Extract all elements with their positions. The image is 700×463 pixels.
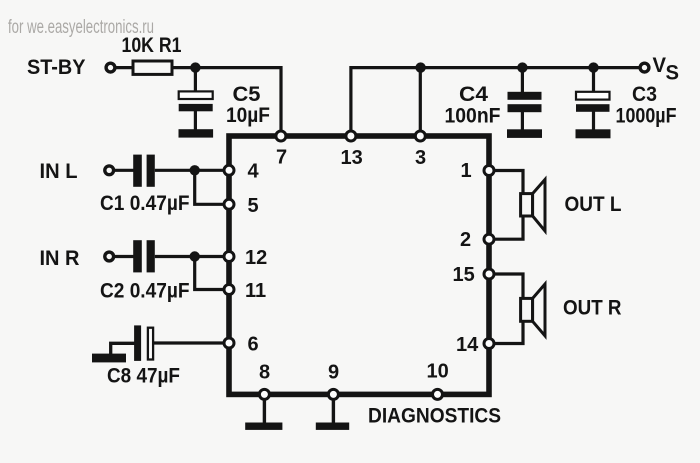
node A junction [190, 62, 200, 72]
pin 8 [259, 362, 270, 400]
svg-text:OUT R: OUT R [563, 297, 622, 320]
wire IN R to C2 [114, 255, 134, 258]
svg-text:6: 6 [248, 334, 259, 356]
Vs rail wire (pin 13 riser to Vs terminal) [351, 68, 640, 133]
Vs terminal [640, 53, 679, 85]
svg-text:IN L: IN L [40, 160, 78, 183]
svg-text:100nF: 100nF [445, 105, 501, 128]
svg-text:13: 13 [341, 147, 363, 169]
wire IN L to C1 [114, 169, 134, 172]
pin 5 [224, 195, 259, 217]
svg-text:C5: C5 [233, 83, 261, 106]
pin 12 [224, 247, 267, 269]
svg-text:3: 3 [415, 147, 426, 169]
speaker OUT L [521, 180, 622, 232]
svg-text:1: 1 [461, 160, 472, 182]
node C junction [517, 62, 527, 72]
IN R terminal [40, 247, 114, 270]
svg-text:7: 7 [276, 147, 287, 169]
pin 2 [460, 229, 494, 251]
svg-text:14: 14 [456, 334, 479, 356]
ground (C4) [507, 129, 542, 138]
ground pin 9 [316, 399, 349, 430]
ST-BY terminal [27, 56, 115, 79]
svg-text:C2 0.47µF: C2 0.47µF [100, 280, 190, 303]
ground pin 8 [245, 399, 282, 430]
svg-text:OUT L: OUT L [565, 193, 622, 216]
svg-text:12: 12 [245, 247, 267, 269]
IC U1 body [229, 136, 489, 394]
node D junction [588, 62, 598, 72]
svg-text:11: 11 [245, 280, 266, 302]
wire C2 to pin 12 [155, 255, 226, 258]
pin 1 [461, 160, 495, 182]
pin 6 [224, 334, 259, 356]
svg-text:2: 2 [460, 229, 471, 251]
wire pin 2 to speaker L [494, 215, 523, 239]
ground (C8) [92, 343, 135, 362]
IN L terminal [40, 160, 114, 183]
svg-text:8: 8 [259, 362, 270, 384]
wire C1 to pin 4 [155, 169, 226, 172]
capacitor C4 [445, 68, 542, 130]
capacitor C2 [100, 240, 190, 302]
svg-text:DIAGNOSTICS: DIAGNOSTICS [368, 405, 501, 428]
pin 15 [453, 264, 495, 286]
svg-text:ST-BY: ST-BY [27, 56, 86, 79]
svg-text:10µF: 10µF [226, 104, 270, 127]
svg-text:9: 9 [328, 362, 339, 384]
wire node E to pin 5 [195, 170, 226, 204]
capacitor C5 [179, 68, 270, 131]
svg-text:1000µF: 1000µF [616, 105, 677, 128]
pin 3 [415, 131, 426, 169]
svg-text:C1 0.47µF: C1 0.47µF [100, 192, 190, 215]
ground (C5) [179, 129, 214, 137]
capacitor C8 [107, 325, 180, 387]
svg-text:10: 10 [427, 361, 449, 383]
pin 9 [328, 362, 339, 400]
wire pin 14 to speaker R [494, 320, 523, 344]
pin 7 [276, 131, 287, 169]
wire R1 to node A [172, 66, 196, 69]
svg-text:4: 4 [248, 161, 260, 183]
capacitor C1 [100, 155, 190, 215]
svg-text:V: V [653, 53, 667, 77]
wire node A to pin 7 [195, 68, 281, 133]
pin 11 [224, 280, 266, 302]
ground (C3) [576, 129, 611, 138]
speaker OUT R [521, 284, 622, 336]
svg-text:15: 15 [453, 264, 475, 286]
pin 13 [341, 131, 363, 169]
wire node F to pin 11 [195, 257, 226, 290]
wire ST-BY to R1 [116, 66, 134, 69]
svg-text:C4: C4 [459, 83, 488, 106]
svg-text:C3: C3 [632, 83, 657, 106]
wire pin 15 to speaker R [494, 274, 523, 300]
pin 14 [456, 334, 494, 356]
svg-text:5: 5 [248, 195, 259, 217]
svg-text:10K R1: 10K R1 [122, 34, 182, 57]
wire C8 to pin 6 [154, 341, 226, 344]
node F junction [190, 251, 200, 261]
capacitor C3 [576, 68, 677, 130]
svg-text:IN R: IN R [40, 247, 80, 270]
wire pin 3 riser [419, 68, 422, 133]
pin 4 [224, 161, 260, 183]
node B junction [415, 62, 425, 72]
node E junction [190, 165, 200, 175]
resistor R1 [122, 34, 182, 74]
pin 10 [427, 361, 449, 400]
wire pin 1 to speaker L [494, 171, 523, 196]
svg-text:C8 47µF: C8 47µF [107, 365, 180, 388]
svg-text:S: S [666, 61, 680, 85]
